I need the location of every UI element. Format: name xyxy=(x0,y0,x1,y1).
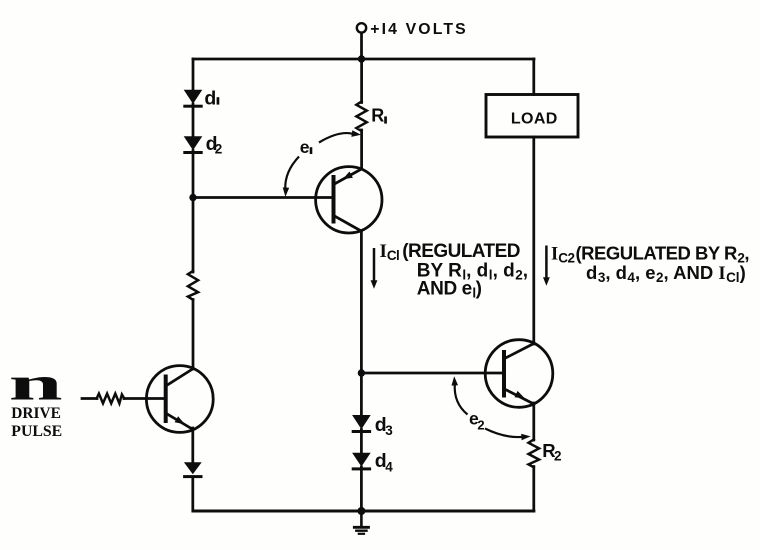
svg-text:2: 2 xyxy=(215,142,223,157)
svg-text:+I4 VOLTS: +I4 VOLTS xyxy=(370,21,468,38)
svg-text:d: d xyxy=(204,87,216,109)
svg-text:d3, d4, e2, AND ICl): d3, d4, e2, AND ICl) xyxy=(586,262,746,285)
svg-text:n: n xyxy=(9,359,63,411)
svg-text:4: 4 xyxy=(385,459,393,474)
svg-text:PULSE: PULSE xyxy=(11,423,62,440)
svg-text:2: 2 xyxy=(554,449,562,464)
svg-text:LOAD: LOAD xyxy=(511,111,558,128)
svg-text:R: R xyxy=(371,106,384,126)
svg-text:3: 3 xyxy=(385,423,393,438)
svg-text:e: e xyxy=(300,137,310,157)
svg-text:DRIVE: DRIVE xyxy=(11,405,61,422)
svg-text:2: 2 xyxy=(477,418,484,433)
